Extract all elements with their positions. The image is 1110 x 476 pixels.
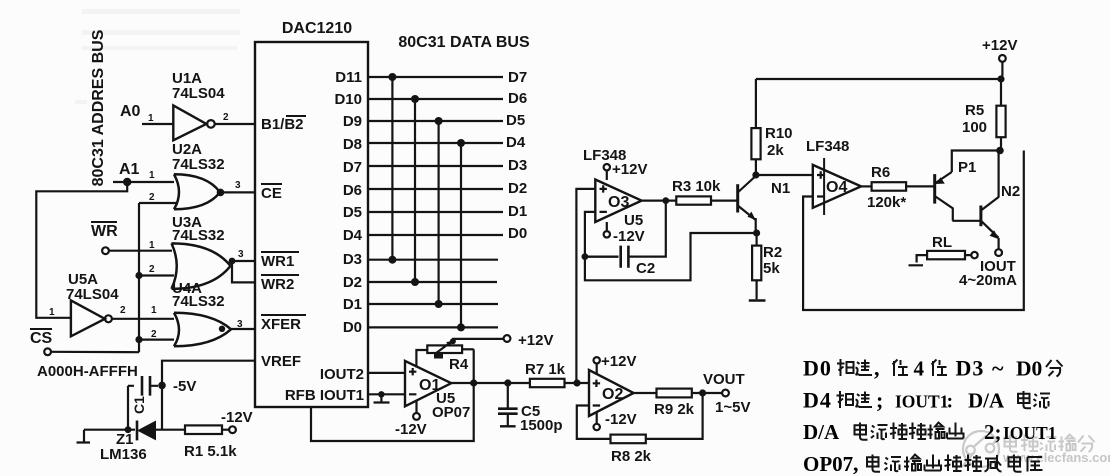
svg-text:-12V: -12V — [221, 409, 253, 426]
text line 2: D4 xianglian; IOUT1: D/A dianliu — [803, 388, 1050, 413]
svg-text:D4: D4 — [506, 134, 526, 151]
wire pin row D3 — [368, 259, 498, 261]
wire O4 minus to feedback loop — [803, 151, 1024, 311]
node C5 tap — [504, 379, 511, 386]
wire P1 collector to N2 base — [952, 220, 981, 222]
node CS label — [30, 328, 53, 347]
wire O4 output to R6 — [861, 185, 872, 187]
svg-text:R7 1k: R7 1k — [525, 361, 566, 378]
svg-text:R3 10k: R3 10k — [672, 178, 721, 195]
svg-text:-12V: -12V — [605, 411, 637, 428]
wire bus vertical D6-D2 — [414, 99, 416, 282]
wire bus vertical D4-D0 — [460, 143, 462, 327]
wire bus row D5 to D1 — [368, 211, 503, 213]
resistor R2 5k — [752, 233, 782, 299]
node -5V — [158, 382, 166, 390]
wire N2 emitter to IOUT terminal — [997, 238, 999, 249]
node +12V rail junction — [997, 75, 1004, 82]
wire chain vertical CS bus — [138, 203, 140, 352]
svg-text:1: 1 — [148, 113, 154, 124]
ground left of Z1 — [77, 430, 136, 443]
svg-text:D6: D6 — [508, 90, 527, 107]
wire O3 plus input down to R7 node — [576, 189, 595, 383]
wire U4A out to XFER — [231, 328, 255, 330]
svg-text:D0: D0 — [1016, 357, 1042, 381]
svg-text:74LS32: 74LS32 — [172, 227, 225, 244]
node WR label — [91, 221, 118, 240]
svg-text:D8: D8 — [343, 136, 362, 153]
node U3A pin2 junction — [135, 272, 142, 279]
or-gate U4A 74LS32 — [172, 280, 231, 346]
svg-text:D/A: D/A — [803, 420, 840, 444]
text line 3: D/A dianliu zhuanhuan shuchu 2;IOUT1 — [803, 420, 1056, 444]
pin label B1/B2 — [261, 115, 306, 133]
terminal +12V — [999, 55, 1006, 62]
capacitor C1 — [128, 376, 158, 430]
node R5 bottom junction — [996, 147, 1004, 155]
wire CS to chain — [51, 351, 139, 354]
svg-text:O3: O3 — [608, 194, 629, 211]
capacitor C2 — [585, 201, 666, 277]
resistor R1 5.1k — [184, 425, 237, 460]
svg-text:80C31 ADDRES BUS: 80C31 ADDRES BUS — [90, 29, 107, 186]
O2 negative supply — [594, 411, 637, 430]
svg-text:D0: D0 — [343, 319, 362, 336]
node U4A output dot — [219, 326, 225, 332]
svg-text:74LS04: 74LS04 — [172, 85, 225, 102]
svg-text:2: 2 — [120, 305, 126, 316]
wire bus row D9 to D5 — [368, 120, 503, 122]
svg-text:N2: N2 — [1001, 183, 1020, 200]
svg-text:LM136: LM136 — [100, 446, 147, 463]
resistor R7 1k — [525, 361, 566, 387]
svg-text:WR2: WR2 — [261, 276, 294, 293]
svg-text:D4: D4 — [803, 388, 832, 413]
svg-text:CS: CS — [30, 330, 53, 347]
terminal IOUT — [995, 249, 1002, 256]
wire R8 to VOUT node — [646, 393, 703, 439]
svg-text:80C31 DATA BUS: 80C31 DATA BUS — [398, 34, 530, 51]
DAC U6 DAC1210 body — [255, 20, 368, 407]
or-gate U2A 74LS32 — [172, 141, 225, 209]
wire U3A out branch to WR2 — [232, 261, 255, 282]
svg-text:C1: C1 — [131, 396, 147, 414]
op-amp O4 LF348 — [806, 138, 861, 215]
faint scan bands top-left — [75, 9, 240, 104]
svg-text:O2: O2 — [602, 386, 623, 403]
svg-text:5k: 5k — [763, 260, 780, 277]
wire VREF to -5V node — [162, 361, 255, 386]
wire N2 collector up to R5 node — [997, 151, 999, 198]
svg-text:1: 1 — [149, 170, 155, 181]
pin label XFER — [261, 314, 306, 333]
wire +12V terminal stub — [1001, 62, 1003, 76]
wire IOUT1 to O1 minus — [368, 393, 405, 395]
svg-text:OP07: OP07 — [432, 404, 470, 421]
node VOUT junction — [699, 389, 706, 396]
wire O3 minus lower loop to emitter node — [585, 233, 757, 280]
svg-text:3: 3 — [238, 249, 244, 260]
svg-text:1500p: 1500p — [520, 417, 563, 434]
svg-text:D4: D4 — [343, 227, 363, 244]
svg-text:4: 4 — [914, 357, 925, 381]
svg-text:R6: R6 — [871, 164, 890, 181]
resistor R10 2k — [751, 79, 792, 175]
zener Z1 LM136 — [100, 421, 185, 464]
svg-text:IOUT1: IOUT1 — [895, 392, 948, 412]
wire A1 branch to U5A input — [36, 182, 127, 318]
wire P1 emitter to R5 node — [952, 151, 1000, 173]
wire U5A out to U4A pin1 — [112, 318, 174, 320]
svg-text:D11: D11 — [335, 69, 362, 86]
ground on IOUT1 wire — [374, 391, 390, 402]
svg-text:D3: D3 — [508, 157, 527, 174]
wire bus vertical D7-D3 — [391, 77, 393, 260]
node C2 left junction — [582, 253, 589, 260]
node emitter junction — [753, 229, 760, 236]
node R4 wiper junction — [450, 338, 456, 344]
wire O2 output — [634, 392, 723, 394]
svg-text:2k: 2k — [767, 142, 784, 159]
transistor Q1 npn — [738, 176, 756, 233]
svg-text:D1: D1 — [508, 203, 527, 220]
svg-text:-12V: -12V — [395, 421, 427, 438]
wire bus row D7 to D3 — [368, 165, 503, 167]
resistor R9 2k — [654, 389, 695, 418]
wire U2A pin2 stub — [139, 202, 178, 204]
svg-text:2;: 2; — [984, 420, 1002, 444]
svg-text:74LS32: 74LS32 — [172, 293, 225, 310]
svg-text:D7: D7 — [508, 69, 527, 86]
svg-text:R10: R10 — [765, 125, 793, 142]
svg-text:D3: D3 — [343, 251, 362, 268]
wire U3A out to WR1 — [231, 261, 256, 263]
svg-text:74LS32: 74LS32 — [172, 156, 225, 173]
terminal WR — [102, 247, 109, 254]
svg-text:B1/B2: B1/B2 — [261, 116, 304, 133]
junction dots data bus — [388, 73, 465, 331]
terminal -12V O1 — [413, 413, 420, 420]
wire U4A pin2 stub — [139, 339, 174, 341]
watermark text 电子发烧友 — [1005, 435, 1095, 453]
wire O1 output row — [451, 382, 589, 384]
svg-text:VOUT: VOUT — [703, 371, 745, 388]
terminal CS — [44, 348, 51, 355]
svg-text:D2: D2 — [343, 274, 362, 291]
wire pin row D2 — [368, 281, 497, 283]
node C1/ground junction — [125, 426, 132, 433]
svg-text:74LS04: 74LS04 — [66, 286, 119, 303]
svg-text:D0: D0 — [508, 225, 527, 242]
svg-text:~: ~ — [992, 356, 1004, 381]
svg-text:R1 5.1k: R1 5.1k — [184, 443, 237, 460]
svg-text:1: 1 — [151, 305, 157, 316]
node U4A pin2 junction — [135, 336, 142, 343]
svg-text:1: 1 — [149, 240, 155, 251]
text line 1: D0 xianglian, di 4 wei D3~D0 fen — [803, 356, 1063, 381]
wire bus row D6 to D2 — [368, 188, 503, 190]
pin label WR2 — [261, 274, 299, 293]
op-amp O1 U5 OP07 — [405, 361, 470, 421]
svg-text:1~5V: 1~5V — [715, 399, 750, 416]
potentiometer R4 — [416, 341, 473, 373]
svg-text:R8 2k: R8 2k — [611, 448, 652, 465]
resistor R3 10k — [672, 178, 721, 205]
node collector junction — [752, 171, 759, 178]
svg-text:A1: A1 — [119, 161, 140, 178]
svg-text:U5: U5 — [624, 212, 643, 229]
svg-text:D6: D6 — [343, 182, 362, 199]
inverter U5A 74LS04 — [66, 271, 119, 336]
O1 negative supply stub — [415, 401, 417, 413]
node R7/O3 junction — [573, 379, 580, 386]
terminal RL right — [971, 252, 977, 258]
svg-text:P1: P1 — [958, 159, 976, 176]
svg-text:+12V: +12V — [601, 353, 636, 370]
text line 4: OP07, dianliu shuchu zhuanhuan cheng dianya — [803, 451, 1043, 476]
wire U2A out to CE — [220, 191, 255, 193]
node O1 out / R4 — [470, 379, 477, 386]
svg-text:;: ; — [876, 388, 883, 413]
svg-text:RFB IOUT1: RFB IOUT1 — [285, 387, 364, 404]
wire bus vertical D5-D1 — [438, 121, 440, 304]
svg-text:WR1: WR1 — [261, 253, 294, 270]
svg-text:CE: CE — [261, 185, 282, 202]
wire +12V rail — [756, 78, 1001, 80]
wire U3A pin2 stub — [139, 274, 174, 276]
svg-text:WR: WR — [91, 223, 118, 240]
svg-text:4~20mA: 4~20mA — [959, 272, 1017, 289]
svg-text:IOUT2: IOUT2 — [320, 366, 364, 383]
svg-text:XFER: XFER — [261, 316, 301, 333]
svg-text:D5: D5 — [343, 204, 362, 221]
wire IOUT2 to O1 plus — [368, 372, 405, 374]
svg-text:VREF: VREF — [261, 353, 301, 370]
terminal +12V (R4) — [504, 335, 511, 342]
svg-text:D3: D3 — [956, 356, 985, 381]
wire A1 to U2A pin1 — [113, 181, 174, 183]
resistor R6 120k — [867, 164, 906, 211]
transistor N2 npn — [981, 183, 1020, 239]
or-gate U3A 74LS32 — [172, 214, 231, 289]
svg-text:2: 2 — [149, 264, 155, 275]
svg-text:RL: RL — [932, 234, 952, 251]
watermark logo circles — [962, 431, 999, 467]
transistor P1 pnp — [935, 159, 977, 221]
wire bus row D8 to D4 — [368, 142, 503, 144]
wire O3 minus to C2 — [585, 212, 619, 257]
wire O2 minus feedback to R8 — [577, 406, 611, 439]
svg-text:D10: D10 — [334, 91, 362, 108]
svg-text:D9: D9 — [343, 113, 362, 130]
svg-text:120k*: 120k* — [867, 194, 906, 211]
svg-text:D7: D7 — [343, 159, 362, 176]
svg-text:IOUT1: IOUT1 — [1003, 423, 1056, 443]
O3 negative supply — [604, 222, 645, 245]
node O3 output junction — [662, 197, 669, 204]
svg-text:D/A: D/A — [968, 389, 1005, 413]
wire pin row D1 — [368, 303, 498, 305]
wire WR to U3A pin1 — [109, 250, 172, 252]
O2 positive supply — [594, 353, 637, 374]
svg-text:2: 2 — [149, 192, 155, 203]
svg-text:O4: O4 — [826, 179, 847, 196]
svg-text:D0: D0 — [803, 356, 832, 381]
wire RFB feedback loop — [311, 383, 474, 441]
wire bus row D4 to D0 — [368, 234, 503, 236]
svg-text:R4: R4 — [449, 356, 469, 373]
svg-text:A0: A0 — [120, 103, 141, 120]
svg-text:N1: N1 — [771, 180, 790, 197]
capacitor C5 1500p — [498, 383, 563, 434]
terminal -12V (R1) — [229, 426, 236, 433]
pin label CE — [261, 183, 282, 202]
svg-text:R2: R2 — [763, 244, 782, 261]
svg-text:R9 2k: R9 2k — [654, 401, 695, 418]
svg-text:R5: R5 — [965, 102, 984, 119]
wire collector node to O4 plus — [756, 174, 813, 176]
pin label WR1 — [261, 251, 299, 270]
svg-text:C2: C2 — [636, 260, 655, 277]
op-amp O3 U5 LF348 — [583, 147, 643, 229]
svg-text:A000H-AFFFH: A000H-AFFFH — [37, 363, 138, 380]
resistor R8 2k — [611, 435, 652, 465]
svg-text:1: 1 — [49, 307, 55, 318]
svg-text:+12V: +12V — [612, 161, 647, 178]
wire bus row D10 to D6 — [368, 98, 503, 100]
op-amp O2 LF348 — [589, 370, 634, 416]
svg-text:+12V: +12V — [518, 332, 553, 349]
resistor R5 100 — [962, 79, 1006, 151]
wire R6 to P1 base — [906, 185, 935, 187]
wire -5V node down to zener line — [161, 385, 163, 429]
svg-text:LF348: LF348 — [806, 138, 849, 155]
svg-text:2: 2 — [151, 329, 157, 340]
svg-text:DAC1210: DAC1210 — [282, 20, 352, 37]
resistor RL — [909, 234, 972, 265]
ground under R2 — [749, 299, 766, 302]
node A1 junction — [123, 178, 131, 186]
node U2A output dot — [217, 189, 225, 197]
svg-text:+12V: +12V — [982, 37, 1017, 54]
wire R4 right leg to output node — [473, 349, 475, 383]
wire A0 to U1A — [142, 123, 173, 125]
wire R3 to Q base — [711, 200, 738, 202]
svg-text:,: , — [874, 356, 880, 381]
svg-text:,: , — [853, 451, 859, 476]
wire R4 wiper to +12V terminal — [453, 339, 504, 341]
svg-text:-5V: -5V — [173, 378, 196, 395]
node U3A output dot — [229, 258, 236, 265]
svg-text:100: 100 — [962, 119, 987, 136]
svg-text:D5: D5 — [506, 112, 525, 129]
wire bus row D11 to D7 — [368, 76, 503, 78]
svg-text:2: 2 — [223, 112, 229, 123]
wire U1A out to B1/B2 — [215, 123, 255, 125]
O3 positive supply — [604, 161, 648, 180]
terminal VOUT — [722, 390, 729, 397]
wire O3 output to R3 — [642, 200, 677, 202]
svg-text:OP07: OP07 — [803, 452, 853, 476]
wire pin row D0 — [368, 326, 498, 328]
svg-text:-12V: -12V — [613, 228, 645, 245]
svg-text:3: 3 — [235, 180, 241, 191]
svg-text:D1: D1 — [343, 296, 362, 313]
inverter U1A 74LS04 — [172, 70, 225, 140]
svg-text:D2: D2 — [508, 180, 527, 197]
svg-text::: : — [947, 391, 954, 413]
